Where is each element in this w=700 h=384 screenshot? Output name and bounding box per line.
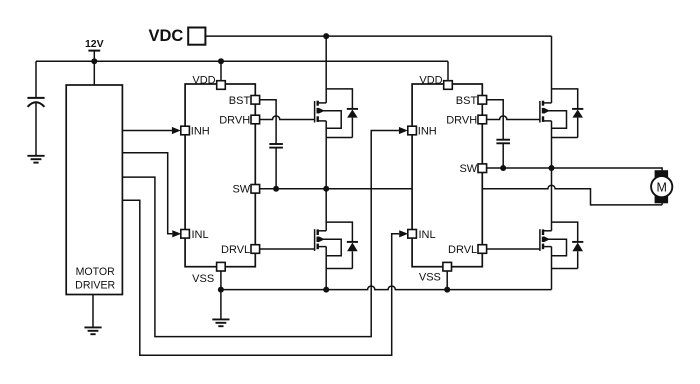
pin BST1 (251, 96, 260, 105)
node VSS1 (218, 287, 224, 293)
diode D1 (326, 89, 352, 109)
pin DRVL1 (251, 245, 260, 254)
wire VSS1 down (220, 271, 222, 319)
transistor Q1 (314, 101, 316, 123)
arrow INH1 (172, 127, 181, 134)
diode D3 (552, 89, 578, 109)
transistor Q2 (314, 229, 316, 251)
wire DRVL2 gate (487, 248, 541, 250)
wire 12V rail (36, 60, 448, 62)
pin SW1 (251, 185, 260, 194)
node phase A (323, 186, 329, 192)
arrow INH2 (399, 127, 408, 134)
pin INH1 (181, 126, 190, 135)
diode D2 (326, 222, 352, 242)
wire 12V tap (93, 51, 95, 85)
wire SW1 phase line to motor (260, 185, 662, 205)
transistor Q4 (539, 229, 541, 251)
wire Q4 source to ground rail (551, 247, 553, 290)
wire DRVH1 gate (260, 116, 315, 120)
svg-text:VDD: VDD (192, 74, 215, 86)
svg-text:INH: INH (191, 126, 210, 138)
svg-text:12V: 12V (85, 38, 104, 50)
node SW1-C2 (273, 186, 279, 192)
wire phase to Q2 drain (325, 189, 327, 231)
gate driver U3 (412, 84, 482, 267)
pin VDD1 (217, 81, 226, 90)
wire cap to SW2 (502, 143, 504, 168)
pin DRVL2 (478, 245, 487, 254)
gate driver U2 (185, 84, 255, 267)
svg-text:DRVH: DRVH (446, 114, 477, 126)
transistor Q3 (539, 101, 541, 123)
node Q2-gnd (323, 287, 329, 293)
wire Q1 source to phase (325, 121, 327, 189)
svg-text:SW: SW (232, 184, 250, 196)
wire DRVH2 gate (487, 116, 541, 120)
arrow INL1 (172, 230, 181, 237)
wire VDC rail (205, 35, 551, 37)
svg-text:DRVL: DRVL (221, 244, 250, 256)
svg-text:INL: INL (419, 229, 436, 241)
svg-text:MOTOR: MOTOR (76, 266, 116, 278)
svg-text:INH: INH (418, 126, 437, 138)
wire INH2 (122, 131, 399, 337)
pin DRVH2 (478, 115, 487, 124)
pin DRVH1 (251, 115, 260, 124)
wire BST2 to cap (487, 100, 504, 140)
ground VSS1 (212, 318, 229, 320)
svg-text:DRVH: DRVH (219, 114, 250, 126)
node SW2-C3 (500, 165, 506, 171)
svg-text:VDD: VDD (419, 74, 442, 86)
svg-text:VSS: VSS (419, 272, 441, 284)
svg-text:DRIVER: DRIVER (75, 280, 115, 292)
pin INH2 (408, 126, 417, 135)
wire INL1 (122, 153, 172, 234)
wire SW2 line to motor (487, 167, 662, 169)
pin INL1 (181, 230, 190, 239)
wire BST1 to cap (260, 100, 277, 144)
wire INH1 (122, 130, 171, 132)
wire motor top stub (661, 167, 663, 172)
ground C1 (27, 155, 44, 157)
node phase B on SW2 (549, 165, 555, 171)
svg-text:BST: BST (456, 95, 478, 107)
node VDC-Q1 (323, 33, 329, 39)
diode D4 (552, 222, 578, 242)
wire cap to SW1 (275, 148, 277, 189)
svg-text:DRVL: DRVL (448, 244, 477, 256)
wire phase B to Q4 drain (551, 168, 553, 231)
pin VSS2 (443, 262, 452, 271)
pin VSS1 (217, 262, 226, 271)
pin VDD2 (444, 81, 453, 90)
wire VDD2 (447, 61, 449, 80)
svg-text:BST: BST (229, 95, 251, 107)
capacitor C3 bootstrap (496, 139, 510, 141)
svg-text:VDC: VDC (148, 27, 183, 45)
node 12V-VDD1 (218, 58, 224, 64)
pin INL2 (408, 230, 417, 239)
node 12V tap (91, 58, 97, 64)
wire driver ground (92, 295, 94, 328)
arrow INL2 (399, 230, 408, 237)
capacitor C1 (27, 97, 44, 99)
wire Q1 drain (325, 36, 327, 103)
wire VSS2 down (446, 271, 448, 290)
wire cap to ground (35, 103, 37, 156)
wire Q3 drain (551, 36, 553, 103)
wire INL2 (122, 200, 399, 355)
svg-text:INL: INL (192, 229, 209, 241)
motor driver U1 (66, 85, 122, 295)
wire Q2 source to ground rail (325, 247, 327, 290)
pin SW2 (478, 164, 487, 173)
wire Q3 source to phase (551, 121, 553, 168)
svg-text:SW: SW (459, 163, 477, 175)
wire ground rail (221, 286, 552, 290)
capacitor C2 bootstrap (269, 143, 283, 145)
svg-text:VSS: VSS (192, 273, 214, 285)
svg-text:M: M (656, 180, 666, 194)
motor M1 (655, 170, 669, 179)
wire VDD1 (220, 61, 222, 80)
pin BST2 (478, 96, 487, 105)
wire DRVL1 gate (260, 248, 315, 250)
wire cap branch (35, 61, 37, 97)
wire motor bottom stub (661, 201, 663, 205)
node VSS2 (444, 287, 450, 293)
ground U1 (84, 326, 101, 328)
